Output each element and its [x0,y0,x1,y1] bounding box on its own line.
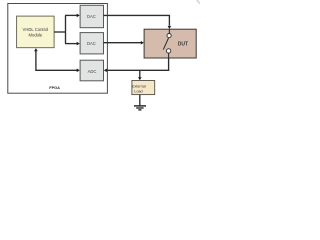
ADC A1 [80,60,103,81]
FPGA box U1 [8,4,108,94]
svg-text:ADC: ADC [88,69,97,74]
corner artifact mark [197,0,200,4]
svg-text:FPGA: FPGA [49,85,60,90]
svg-text:DAC: DAC [87,41,96,46]
svg-text:DAC: DAC [87,14,96,19]
svg-text:External: External [132,84,146,88]
wire output node to External Load [138,70,142,80]
wire DUT output to ADC [104,58,169,72]
wire VHDL output to branch node [54,15,65,43]
switch SW1 bottom contact [166,49,170,53]
VHDL Control Module block [17,16,55,48]
wire DAC D1 to DUT top [104,15,172,29]
DAC D1 [80,5,103,27]
ground symbol [134,106,146,110]
switch SW1 bottom stub [168,53,170,58]
DAC D2 [80,33,103,54]
External Load block R1 [132,81,155,95]
svg-text:VHDL Control: VHDL Control [23,27,49,32]
wire External Load to ground [139,95,141,106]
wire VHDL to ADC (double arrow) [34,48,80,72]
wire DAC D2 to DUT left [104,41,144,45]
switch SW1 top contact [167,34,171,38]
wire branch to DAC D2 [65,42,80,46]
switch SW1 top stub [168,29,170,33]
svg-text:DUT: DUT [178,41,188,47]
wire branch to DAC D1 [65,14,80,18]
DUT box [144,29,196,58]
svg-text:Module: Module [29,32,43,37]
svg-text:Load: Load [134,89,142,93]
switch SW1 lever [163,38,168,50]
